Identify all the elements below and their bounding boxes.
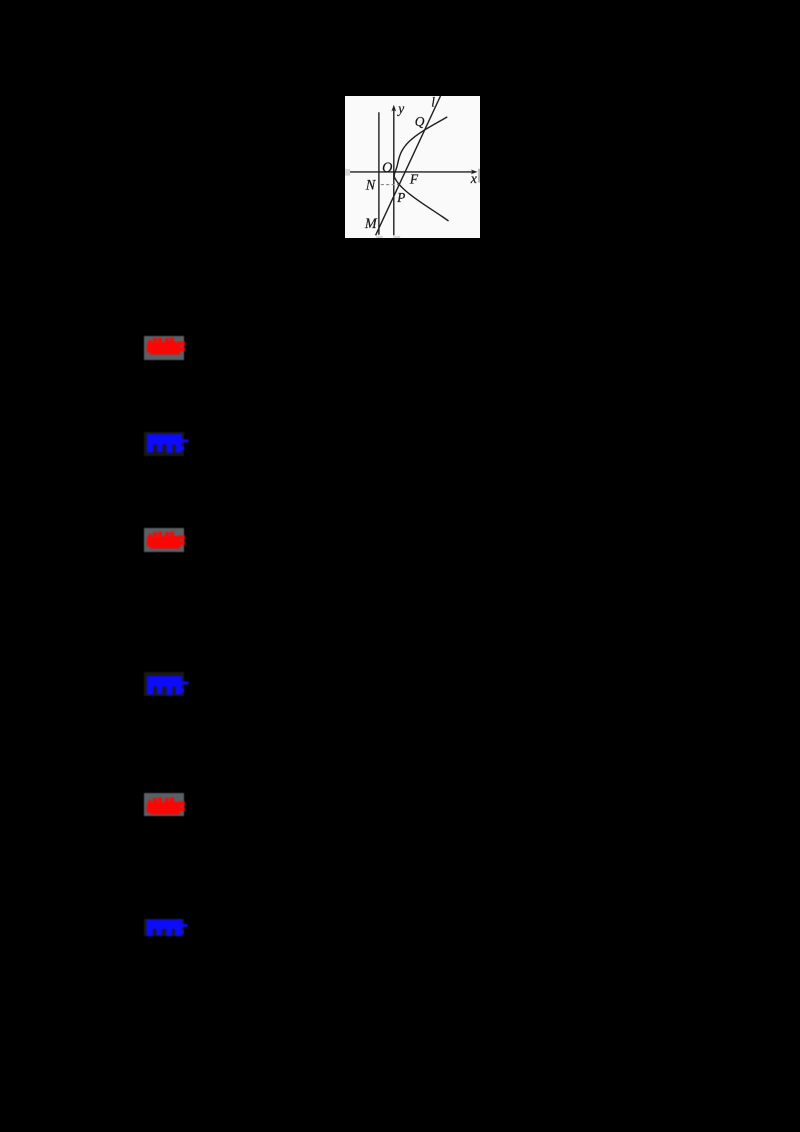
svg-text:N: N [364,177,376,193]
blue highlighted word 2 [144,672,184,696]
parabola lower branch [394,177,448,221]
red highlighted word 1 [144,336,184,360]
blue highlighted word 3 [144,919,184,936]
y-axis arrowhead [391,104,396,111]
grey handle bottom under y-axis [393,235,400,238]
grey handle bottom under directrix [376,235,383,238]
svg-text:P: P [396,190,405,205]
svg-text:Q: Q [414,114,424,129]
x-axis arrowhead [470,169,477,174]
grey handle left of x-axis [345,168,350,175]
dashed segment N to P [380,183,398,185]
red highlighted word 3 [144,793,184,816]
grey caret right of x label [478,168,479,182]
parabola upper branch [394,116,447,176]
red highlighted word 2 [144,528,184,552]
svg-text:F: F [408,171,418,186]
line l through focus [375,96,440,235]
svg-text:l: l [431,96,435,109]
svg-text:M: M [363,215,377,231]
x-axis [350,170,473,172]
svg-text:y: y [396,100,404,115]
figure: parabola diagram image [345,96,480,239]
svg-text:O: O [382,159,392,175]
svg-text:x: x [469,170,477,185]
directrix vertical line [377,112,379,234]
blue highlighted word 1 [144,432,184,456]
y-axis [392,110,394,235]
